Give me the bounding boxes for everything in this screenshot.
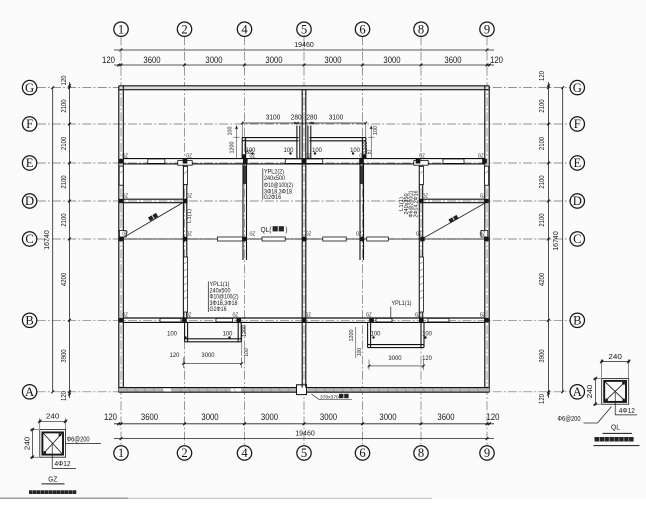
svg-text:6: 6 bbox=[359, 22, 365, 36]
svg-text:GZ: GZ bbox=[359, 154, 365, 160]
svg-text:120: 120 bbox=[537, 71, 546, 81]
svg-text:120: 120 bbox=[104, 411, 117, 422]
svg-text:100: 100 bbox=[357, 348, 363, 357]
svg-text:D: D bbox=[573, 194, 582, 208]
svg-text:100: 100 bbox=[228, 127, 234, 136]
svg-text:GZ: GZ bbox=[366, 313, 372, 319]
svg-text:GZ: GZ bbox=[122, 231, 128, 237]
svg-text:YPL1(1): YPL1(1) bbox=[210, 282, 230, 288]
svg-text:C: C bbox=[25, 232, 33, 246]
svg-text:100: 100 bbox=[167, 331, 177, 338]
svg-text:4200: 4200 bbox=[59, 273, 68, 286]
svg-text:YPL1(1): YPL1(1) bbox=[392, 301, 412, 307]
svg-text:Φ10@100(2): Φ10@100(2) bbox=[210, 295, 239, 301]
svg-text:100: 100 bbox=[246, 147, 256, 154]
svg-text:GZ: GZ bbox=[186, 154, 192, 160]
svg-text:GZ: GZ bbox=[187, 193, 193, 199]
svg-text:9: 9 bbox=[484, 22, 490, 36]
svg-text:QL(: QL( bbox=[261, 225, 273, 234]
svg-text:6: 6 bbox=[359, 446, 365, 460]
svg-text:3900: 3900 bbox=[59, 349, 68, 362]
svg-text:3100: 3100 bbox=[329, 113, 344, 122]
svg-text:E: E bbox=[573, 156, 581, 170]
svg-text:4Φ12: 4Φ12 bbox=[55, 461, 71, 468]
svg-text:GZ: GZ bbox=[416, 231, 422, 237]
svg-text:120: 120 bbox=[59, 76, 68, 86]
svg-text:3000: 3000 bbox=[261, 411, 278, 422]
svg-text:3100: 3100 bbox=[266, 113, 281, 122]
svg-text:3600: 3600 bbox=[143, 54, 160, 65]
svg-text:120: 120 bbox=[102, 54, 115, 65]
svg-text:4: 4 bbox=[241, 22, 248, 36]
svg-text:3000: 3000 bbox=[205, 54, 222, 65]
svg-text:8: 8 bbox=[418, 22, 424, 36]
svg-text:19460: 19460 bbox=[295, 431, 315, 438]
svg-text:E: E bbox=[26, 156, 34, 170]
svg-text:Φ6@200: Φ6@200 bbox=[67, 437, 90, 444]
svg-text:240: 240 bbox=[585, 385, 594, 399]
svg-text:2: 2 bbox=[181, 446, 187, 460]
svg-text:1200: 1200 bbox=[230, 142, 236, 154]
svg-text:YPL2(2): YPL2(2) bbox=[264, 169, 284, 175]
svg-text:2100: 2100 bbox=[59, 99, 68, 112]
svg-text:QL: QL bbox=[611, 425, 620, 432]
svg-text:1: 1 bbox=[118, 446, 124, 460]
svg-text:100: 100 bbox=[244, 348, 250, 357]
svg-text:): ) bbox=[285, 225, 287, 234]
svg-text:100: 100 bbox=[350, 147, 360, 154]
svg-text:240x500: 240x500 bbox=[264, 176, 286, 182]
svg-text:C: C bbox=[573, 232, 581, 246]
svg-text:GZ: GZ bbox=[478, 154, 484, 160]
svg-text:G: G bbox=[25, 81, 34, 95]
svg-text:GZ: GZ bbox=[122, 313, 128, 319]
svg-text:240: 240 bbox=[46, 412, 60, 421]
svg-text:Φ6@200: Φ6@200 bbox=[558, 416, 581, 423]
svg-text:Φ10@100(2): Φ10@100(2) bbox=[264, 183, 293, 189]
svg-text:100: 100 bbox=[223, 331, 233, 338]
svg-text:G: G bbox=[573, 81, 582, 95]
svg-text:3000: 3000 bbox=[324, 54, 341, 65]
svg-text:G2Φ16: G2Φ16 bbox=[264, 195, 282, 201]
svg-text:3Φ18,3Φ18: 3Φ18,3Φ18 bbox=[210, 301, 239, 307]
svg-text:2100: 2100 bbox=[59, 137, 68, 150]
svg-text:100: 100 bbox=[373, 126, 379, 135]
svg-text:2Φ14,2Φ16: 2Φ14,2Φ16 bbox=[413, 191, 419, 218]
svg-text:D: D bbox=[25, 194, 34, 208]
svg-text:GZ: GZ bbox=[250, 231, 256, 237]
svg-text:B: B bbox=[25, 314, 33, 328]
svg-text:120: 120 bbox=[170, 352, 180, 359]
svg-text:240: 240 bbox=[608, 352, 622, 361]
svg-text:3600: 3600 bbox=[444, 54, 461, 65]
svg-text:5: 5 bbox=[301, 446, 307, 460]
svg-text:1200: 1200 bbox=[363, 142, 369, 154]
svg-text:1200: 1200 bbox=[242, 325, 248, 337]
svg-text:F: F bbox=[574, 117, 581, 131]
svg-text:9: 9 bbox=[484, 446, 490, 460]
svg-text:GZ: GZ bbox=[122, 154, 128, 160]
svg-text:2: 2 bbox=[181, 22, 187, 36]
svg-text:A: A bbox=[573, 385, 582, 399]
svg-text:3000: 3000 bbox=[265, 54, 282, 65]
svg-text:120: 120 bbox=[59, 391, 68, 401]
svg-text:2100: 2100 bbox=[537, 99, 546, 112]
svg-text:GZ: GZ bbox=[186, 313, 192, 319]
svg-text:4Φ12: 4Φ12 bbox=[619, 408, 635, 415]
svg-text:2100: 2100 bbox=[59, 175, 68, 188]
svg-text:100: 100 bbox=[371, 331, 381, 338]
svg-text:1: 1 bbox=[118, 22, 124, 36]
svg-text:L1(1): L1(1) bbox=[187, 209, 193, 223]
svg-text:GZ: GZ bbox=[480, 231, 486, 237]
svg-text:280: 280 bbox=[291, 113, 302, 122]
svg-text:B: B bbox=[573, 314, 581, 328]
svg-text:GZ: GZ bbox=[356, 231, 362, 237]
svg-text:5: 5 bbox=[301, 22, 307, 36]
svg-text:100: 100 bbox=[422, 331, 432, 338]
svg-text:GZ: GZ bbox=[305, 154, 311, 160]
svg-text:240x500: 240x500 bbox=[210, 288, 232, 294]
svg-text:3900: 3900 bbox=[537, 349, 546, 362]
svg-text:GZ: GZ bbox=[480, 193, 486, 199]
svg-text:GZ: GZ bbox=[415, 313, 421, 319]
svg-text:3000: 3000 bbox=[379, 411, 396, 422]
svg-text:4200: 4200 bbox=[537, 273, 546, 286]
svg-text:370x370: 370x370 bbox=[320, 394, 339, 400]
svg-text:19460: 19460 bbox=[294, 42, 314, 49]
svg-text:120: 120 bbox=[487, 411, 500, 422]
svg-text:4: 4 bbox=[241, 446, 248, 460]
svg-text:G2Φ16: G2Φ16 bbox=[210, 307, 228, 313]
svg-text:2100: 2100 bbox=[537, 213, 546, 226]
svg-text:100: 100 bbox=[284, 147, 294, 154]
svg-text:3000: 3000 bbox=[388, 355, 402, 362]
svg-text:A: A bbox=[25, 385, 34, 399]
svg-text:240: 240 bbox=[22, 437, 31, 451]
svg-text:16740: 16740 bbox=[44, 230, 51, 250]
svg-text:280: 280 bbox=[306, 113, 317, 122]
svg-text:2100: 2100 bbox=[537, 137, 546, 150]
svg-text:3600: 3600 bbox=[437, 411, 454, 422]
svg-text:2100: 2100 bbox=[537, 175, 546, 188]
svg-text:GZ: GZ bbox=[186, 231, 192, 237]
svg-text:GZ: GZ bbox=[306, 231, 312, 237]
svg-text:GZ: GZ bbox=[122, 193, 128, 199]
svg-text:3000: 3000 bbox=[383, 54, 400, 65]
svg-text:GZ: GZ bbox=[422, 193, 428, 199]
svg-text:120: 120 bbox=[537, 394, 546, 404]
svg-text:16740: 16740 bbox=[553, 231, 560, 251]
svg-text:120: 120 bbox=[490, 54, 503, 65]
svg-text:1200: 1200 bbox=[349, 330, 355, 342]
svg-text:GZ: GZ bbox=[305, 313, 311, 319]
svg-text:3000: 3000 bbox=[201, 352, 215, 359]
svg-text:2100: 2100 bbox=[59, 213, 68, 226]
svg-text:F: F bbox=[26, 117, 33, 131]
svg-text:GZ: GZ bbox=[480, 313, 486, 319]
svg-text:GZ: GZ bbox=[419, 154, 425, 160]
svg-text:100: 100 bbox=[312, 147, 322, 154]
svg-text:3000: 3000 bbox=[320, 411, 337, 422]
svg-text:GZ: GZ bbox=[233, 313, 239, 319]
svg-text:3600: 3600 bbox=[141, 411, 158, 422]
svg-text:8: 8 bbox=[418, 446, 424, 460]
svg-text:3000: 3000 bbox=[201, 411, 218, 422]
svg-text:GZ: GZ bbox=[48, 476, 58, 483]
